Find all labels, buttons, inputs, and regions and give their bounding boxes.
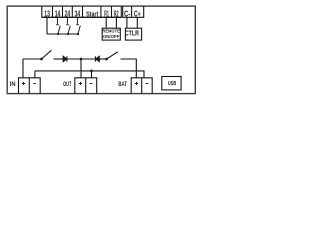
IN terminal block <box>19 78 41 94</box>
svg-text:IN: IN <box>10 81 16 88</box>
ctlr block <box>125 28 142 40</box>
svg-text:REMOTE: REMOTE <box>102 29 119 34</box>
device outline border <box>7 6 195 94</box>
svg-text:BAT: BAT <box>118 81 127 88</box>
terminal strip box 13 14 24 34 Start R1 R2 <box>42 6 122 17</box>
OUT terminal block <box>75 78 97 94</box>
wire IN+ up to rail <box>22 59 24 78</box>
USB port block <box>162 77 181 90</box>
wire OUT- from negative rail <box>91 71 93 78</box>
svg-text:USB: USB <box>168 81 177 87</box>
svg-text:13: 13 <box>44 9 50 19</box>
BAT terminal block <box>131 78 152 94</box>
remote on/off block <box>102 28 120 40</box>
diode D2 (battery) <box>95 56 99 61</box>
BAT + sign <box>135 82 138 85</box>
relay contact 33-34 <box>76 17 80 35</box>
wire IN- up to negative rail <box>34 71 36 78</box>
relay contact 23-24 <box>66 17 70 35</box>
svg-text:OUT: OUT <box>63 81 71 88</box>
output node junction <box>80 58 83 61</box>
wire R1 to remote box <box>105 17 107 28</box>
IN + sign <box>22 82 25 85</box>
input switch S1 <box>40 50 51 60</box>
OUT + sign <box>79 82 82 85</box>
negative node junction at OUT- <box>90 70 93 73</box>
positive rail wire IN+ to switch <box>23 58 42 60</box>
diode D1 (input) <box>63 56 67 61</box>
svg-text:R2: R2 <box>114 9 119 18</box>
svg-text:C-: C- <box>124 9 131 18</box>
wire OUT+ from output node <box>80 59 82 78</box>
BAT - sign <box>146 83 149 85</box>
wire switch to diode D1 <box>54 58 64 60</box>
relay contact 13-14 <box>56 17 60 35</box>
contact common bus wire <box>47 33 78 35</box>
svg-text:24: 24 <box>65 9 71 19</box>
svg-text:ON/OFF: ON/OFF <box>103 34 120 39</box>
wire from terminal 13 down to contact bus <box>46 17 48 34</box>
svg-text:CTLR: CTLR <box>125 29 139 38</box>
OUT - sign <box>90 83 93 85</box>
wire R2 to remote box <box>115 17 117 28</box>
svg-text:14: 14 <box>55 9 61 19</box>
svg-text:34: 34 <box>75 9 81 19</box>
negative rail wire <box>35 71 144 78</box>
battery switch S2 <box>105 52 118 61</box>
wire C- to ctlr box <box>126 17 128 28</box>
svg-text:C+: C+ <box>134 9 141 18</box>
wire battery switch to BAT+ <box>121 59 137 78</box>
IN - sign <box>33 83 36 85</box>
wire D1 to output node <box>67 58 96 60</box>
svg-text:R1: R1 <box>104 9 109 18</box>
wire C+ to ctlr box <box>136 17 138 28</box>
wire D2 to battery switch <box>99 58 106 60</box>
svg-text:Start: Start <box>86 9 99 18</box>
terminal strip box C- C+ <box>123 6 144 17</box>
